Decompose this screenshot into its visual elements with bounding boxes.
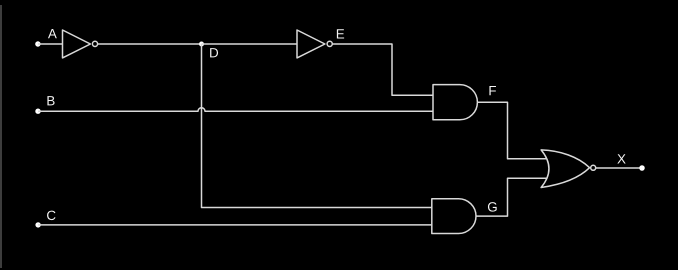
- wire G output to NOR gate bottom input: [476, 178, 548, 216]
- label E: [337, 29, 344, 38]
- and gate U3 (output F): [433, 85, 477, 120]
- label F: [489, 86, 496, 95]
- input A: [35, 41, 40, 46]
- label G: [488, 202, 497, 211]
- wire inverter U1 output to node D: [98, 43, 202, 45]
- inverter U1 (NOT gate on A): [63, 30, 98, 58]
- label B: [47, 96, 54, 105]
- canvas edge line: [0, 5, 2, 268]
- output X terminal dot: [639, 165, 645, 171]
- wire A to inverter: [38, 43, 63, 45]
- wire F output to NOR gate top input: [477, 102, 547, 159]
- wire NOR output to X: [596, 167, 642, 169]
- label D: [210, 48, 218, 57]
- wire node D to inverter U2: [202, 43, 298, 45]
- and gate U4 (output G): [432, 199, 476, 234]
- label X: [617, 154, 625, 163]
- label A: [48, 29, 57, 38]
- nor gate U5 (output X): [541, 150, 596, 188]
- input B: [35, 109, 40, 114]
- inverter U2 (NOT gate, output E): [297, 30, 332, 58]
- input C: [35, 222, 40, 227]
- wire node D down to AND gate U4 top input: [202, 44, 432, 208]
- wire B to AND gate U3 bottom input (hops over vertical D wire): [38, 108, 433, 111]
- label C: [47, 211, 55, 220]
- wire C to AND gate U4 bottom input: [38, 224, 432, 226]
- wire E to AND gate U3 top input: [332, 44, 433, 95]
- node D junction dot: [199, 42, 204, 47]
